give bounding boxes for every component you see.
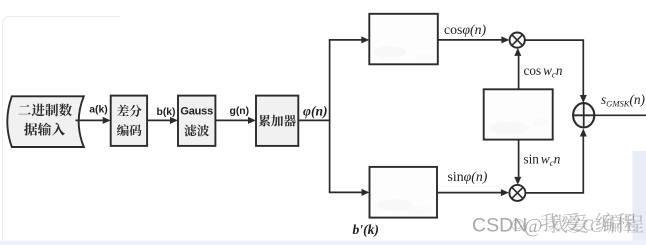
wire oscillator -> multiplier2 [518, 140, 520, 178]
box: accumulator [256, 96, 298, 146]
wire cos lookup -> multiplier1 [438, 39, 502, 41]
box: sin lookup (empty) [370, 167, 438, 218]
box: Gauss filter [178, 96, 215, 146]
wire diff->gauss [147, 119, 170, 121]
svg-text:sinφ(n): sinφ(n) [448, 169, 488, 185]
adder (circle-plus) [573, 103, 594, 127]
label: binary data input line2 [24, 123, 65, 136]
svg-text:sinwcn: sinwcn [524, 152, 561, 169]
multiplier M2 (circle-X) [509, 185, 525, 201]
svg-text:Gauss: Gauss [180, 106, 213, 118]
svg-text:©: © [511, 215, 525, 235]
wire adder -> output [595, 114, 646, 116]
box: cos lookup (empty) [369, 14, 438, 65]
svg-text:b(k): b(k) [156, 107, 175, 118]
page tint right strip [633, 151, 646, 245]
box: carrier oscillator (empty) [484, 89, 553, 139]
label: binary data input line1 [18, 104, 72, 117]
svg-text:φ(n): φ(n) [303, 104, 328, 120]
wire multiplier2 -> adder [525, 135, 583, 193]
svg-text:cosφ(n): cosφ(n) [444, 22, 487, 38]
svg-text:coswcn: coswcn [524, 63, 563, 80]
svg-text:a(k): a(k) [89, 105, 107, 116]
stored-data symbol: binary data input [7, 96, 84, 147]
wire to bottom branch [329, 191, 362, 193]
vertical split wire [329, 40, 331, 193]
wire shape->diff encoder [76, 119, 103, 121]
wire to top branch [329, 39, 362, 41]
page tint bottom strip [0, 241, 646, 245]
wire accumulator->junction [298, 119, 330, 121]
wire oscillator -> multiplier1 [518, 54, 520, 89]
svg-text:b'(k): b'(k) [353, 222, 379, 238]
svg-text:C: C [590, 217, 601, 236]
faint card border top-left [3, 17, 121, 241]
wire multiplier1 -> adder [525, 40, 584, 96]
svg-text:@: @ [524, 215, 542, 237]
wire sin lookup -> multiplier2 [437, 192, 501, 194]
box: differential encoding [111, 96, 147, 146]
svg-text:g(n): g(n) [229, 106, 249, 117]
wire gauss->accumulator [215, 119, 248, 121]
multiplier M1 (circle-X) [510, 33, 525, 48]
